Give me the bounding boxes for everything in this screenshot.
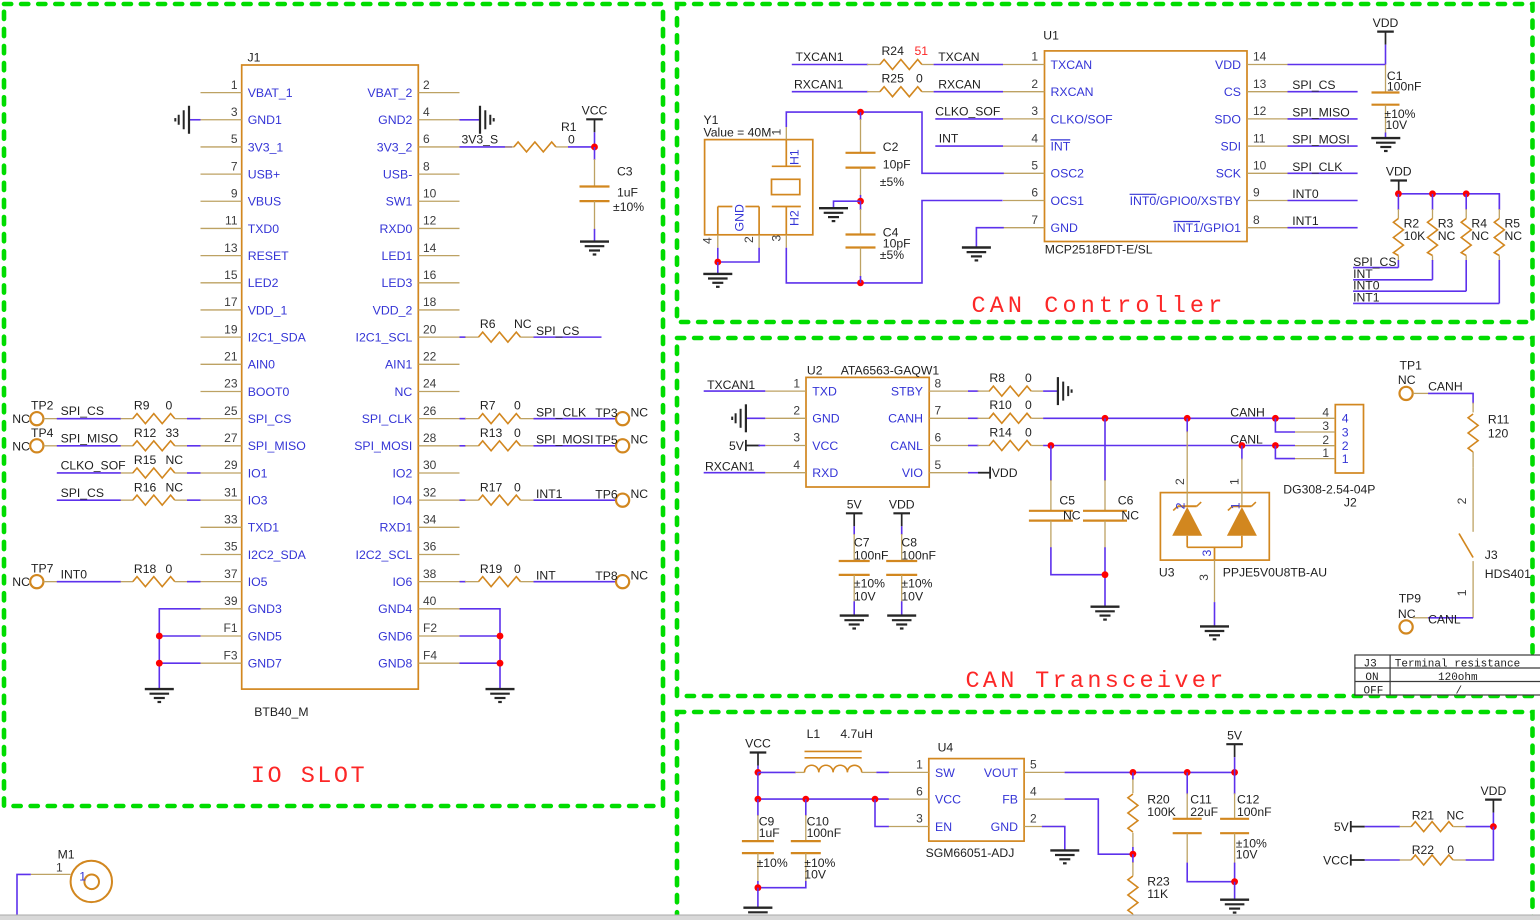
svg-text:GND: GND xyxy=(1051,221,1078,235)
svg-text:0: 0 xyxy=(1447,843,1454,857)
svg-text:SPI_CLK: SPI_CLK xyxy=(1292,160,1342,174)
svg-text:F2: F2 xyxy=(423,621,437,635)
svg-text:11: 11 xyxy=(1253,131,1266,145)
svg-text:R25: R25 xyxy=(882,71,905,85)
svg-text:2: 2 xyxy=(742,236,756,243)
svg-text:38: 38 xyxy=(423,567,437,581)
TVS diode array U3 PPJE5V0U8TB-AU xyxy=(1159,418,1327,602)
wire U4 pin2 GND xyxy=(1042,827,1065,851)
svg-text:51: 51 xyxy=(915,44,929,58)
svg-text:3: 3 xyxy=(1322,419,1329,433)
wire GND bus left xyxy=(159,609,200,689)
svg-text:LED3: LED3 xyxy=(382,276,413,290)
svg-text:34: 34 xyxy=(423,513,437,527)
test point TP1 (NC) xyxy=(1398,359,1429,401)
svg-text:SPI_MOSI: SPI_MOSI xyxy=(354,439,412,453)
svg-text:TP4: TP4 xyxy=(31,426,54,440)
svg-text:3: 3 xyxy=(1031,104,1038,118)
svg-text:SPI_CS: SPI_CS xyxy=(536,324,579,338)
svg-text:Value = 40M: Value = 40M xyxy=(704,126,772,140)
svg-text:CLKO_SOF: CLKO_SOF xyxy=(61,459,126,473)
capacitor C7 100nF xyxy=(839,534,889,616)
svg-text:33: 33 xyxy=(224,513,238,527)
svg-text:3V3_S: 3V3_S xyxy=(462,132,499,146)
svg-text:0: 0 xyxy=(1025,398,1032,412)
svg-text:TP9: TP9 xyxy=(1399,592,1422,606)
svg-text:25: 25 xyxy=(224,404,238,418)
svg-text:VDD: VDD xyxy=(992,466,1018,480)
svg-text:1: 1 xyxy=(770,129,784,136)
junction R2 top xyxy=(1395,190,1402,197)
svg-text:GND1: GND1 xyxy=(248,113,282,127)
net label SPI_CS xyxy=(57,486,121,500)
ground below C5/C6 xyxy=(1091,606,1120,608)
svg-text:120ohm: 120ohm xyxy=(1438,672,1478,684)
svg-text:3: 3 xyxy=(916,812,923,826)
svg-text:SPI_MISO: SPI_MISO xyxy=(248,439,306,453)
net label SPI_CS at U1 pin 13 xyxy=(1288,78,1358,92)
svg-text:VDD: VDD xyxy=(1215,58,1241,72)
wire junction to ground xyxy=(717,262,719,274)
svg-text:RXCAN1: RXCAN1 xyxy=(705,459,755,473)
svg-text:INT: INT xyxy=(939,132,959,146)
svg-text:R15: R15 xyxy=(134,453,157,467)
ground below C9/C10 xyxy=(743,907,772,909)
svg-text:0: 0 xyxy=(514,399,521,413)
wire net VOUT 5V xyxy=(1065,771,1235,773)
svg-text:SPI_CLK: SPI_CLK xyxy=(362,412,413,426)
junction VCC/C3 xyxy=(591,144,598,151)
svg-text:C2: C2 xyxy=(883,140,899,154)
ground at J1 pin 4 xyxy=(460,106,494,134)
resistor R1 0 xyxy=(505,120,577,152)
svg-text:LED2: LED2 xyxy=(248,276,279,290)
resistor R18 0 xyxy=(121,562,201,587)
ground at U1 pin7 xyxy=(962,246,991,248)
test point TP7 (NC) xyxy=(12,562,57,590)
svg-text:2: 2 xyxy=(1031,77,1038,91)
svg-text:37: 37 xyxy=(224,567,238,581)
svg-text:±5%: ±5% xyxy=(880,175,904,189)
svg-text:SGM66051-ADJ: SGM66051-ADJ xyxy=(926,846,1015,860)
svg-text:AIN0: AIN0 xyxy=(248,358,275,372)
wire R1 to VCC node xyxy=(568,146,595,148)
svg-text:INT0/GPIO0/XSTBY: INT0/GPIO0/XSTBY xyxy=(1130,194,1241,208)
svg-text:VBAT_2: VBAT_2 xyxy=(367,86,412,100)
svg-text:4: 4 xyxy=(1031,131,1038,145)
svg-text:R22: R22 xyxy=(1412,843,1435,857)
ground below U3 xyxy=(1200,625,1229,627)
power flag VCC input xyxy=(745,737,771,773)
svg-text:RXD0: RXD0 xyxy=(379,222,412,236)
svg-text:6: 6 xyxy=(1031,186,1038,200)
svg-text:2: 2 xyxy=(1455,497,1469,504)
svg-text:31: 31 xyxy=(224,485,238,499)
svg-text:U2: U2 xyxy=(807,364,823,378)
svg-text:3: 3 xyxy=(1197,574,1211,581)
svg-text:0: 0 xyxy=(166,562,173,576)
resistor R14 0 xyxy=(968,425,1043,450)
svg-text:OSC2: OSC2 xyxy=(1051,167,1085,181)
svg-text:8: 8 xyxy=(1253,213,1260,227)
svg-text:4: 4 xyxy=(1322,406,1329,420)
net label RXCAN1 xyxy=(792,77,868,91)
wire mid junction to ground xyxy=(834,201,861,208)
svg-text:HDS401: HDS401 xyxy=(1485,567,1531,581)
svg-text:U3: U3 xyxy=(1159,565,1175,579)
connector J1 BTB40_M xyxy=(201,51,460,720)
svg-text:R19: R19 xyxy=(480,562,503,576)
resistor R25 0 xyxy=(867,71,934,96)
svg-text:SPI_MOSI: SPI_MOSI xyxy=(1292,133,1350,147)
svg-text:C7: C7 xyxy=(854,536,870,550)
svg-text:INT: INT xyxy=(536,568,556,582)
svg-text:F1: F1 xyxy=(223,621,237,635)
svg-text:NC: NC xyxy=(631,405,649,419)
svg-text:NC: NC xyxy=(166,453,184,467)
svg-text:NC: NC xyxy=(395,385,413,399)
net label SPI_MISO xyxy=(57,431,121,445)
svg-text:0: 0 xyxy=(1025,425,1032,439)
svg-text:1: 1 xyxy=(1031,50,1038,64)
svg-text:RXD1: RXD1 xyxy=(379,521,412,535)
wire VCC rail to U4 pin6 xyxy=(758,772,889,799)
svg-text:1: 1 xyxy=(1228,478,1242,485)
svg-text:4: 4 xyxy=(1342,412,1349,426)
svg-text:GND: GND xyxy=(991,820,1018,834)
svg-text:40: 40 xyxy=(423,594,437,608)
ground below C12 xyxy=(1220,899,1249,901)
svg-text:GND4: GND4 xyxy=(378,602,412,616)
ground bottom right of J1 xyxy=(486,688,515,690)
capacitor C1 100nF xyxy=(1372,65,1422,139)
svg-text:22: 22 xyxy=(423,350,437,364)
net label INT0 at R4 xyxy=(1353,278,1466,292)
svg-text:R11: R11 xyxy=(1488,412,1510,426)
svg-text:F4: F4 xyxy=(423,648,437,662)
svg-text:VDD: VDD xyxy=(889,498,915,512)
power flag VDD output xyxy=(1481,784,1507,827)
capacitor C6 NC xyxy=(1083,418,1139,606)
svg-text:2: 2 xyxy=(423,78,430,92)
svg-text:2: 2 xyxy=(1173,478,1187,485)
svg-text:10: 10 xyxy=(1253,159,1267,173)
net label INT0 at U1 pin 9 xyxy=(1288,187,1358,201)
capacitor C11 22uF xyxy=(1173,772,1235,881)
svg-text:R24: R24 xyxy=(882,44,905,58)
svg-text:10V: 10V xyxy=(854,589,877,603)
svg-text:5V: 5V xyxy=(1334,820,1350,834)
svg-text:±10%: ±10% xyxy=(613,200,644,214)
IC U1 MCP2518FDT-E/SL xyxy=(1003,29,1288,257)
svg-text:TP6: TP6 xyxy=(595,488,618,502)
svg-text:DG308-2.54-04P: DG308-2.54-04P xyxy=(1283,483,1375,497)
svg-text:R9: R9 xyxy=(134,399,150,413)
svg-text:NC: NC xyxy=(1121,508,1139,522)
svg-text:3V3_1: 3V3_1 xyxy=(248,140,284,154)
svg-text:M1: M1 xyxy=(58,848,75,862)
svg-text:R18: R18 xyxy=(134,562,157,576)
svg-text:39: 39 xyxy=(224,594,238,608)
svg-text:SPI_CS: SPI_CS xyxy=(1292,78,1335,92)
svg-text:SW1: SW1 xyxy=(386,195,413,209)
net label RXCAN xyxy=(934,77,1003,91)
test point TP4 (NC) xyxy=(12,426,57,454)
svg-text:5V: 5V xyxy=(729,439,745,453)
svg-text:3: 3 xyxy=(1342,425,1349,439)
svg-text:1: 1 xyxy=(79,870,86,884)
svg-text:R8: R8 xyxy=(989,371,1005,385)
svg-text:1: 1 xyxy=(1455,589,1469,596)
svg-text:8: 8 xyxy=(935,376,942,390)
power flag VDD at C1 xyxy=(1373,16,1399,65)
svg-text:F3: F3 xyxy=(223,648,237,662)
svg-text:J1: J1 xyxy=(248,51,261,65)
junction GND left F3 xyxy=(156,660,163,667)
svg-text:J3: J3 xyxy=(1364,658,1377,670)
svg-text:IO SLOT: IO SLOT xyxy=(251,763,367,790)
power flag 5V at C7 xyxy=(846,498,863,536)
svg-text:GND6: GND6 xyxy=(378,629,412,643)
svg-text:GND: GND xyxy=(733,204,747,231)
power flag VCC xyxy=(582,104,608,147)
net label SPI_CS at R2 xyxy=(1353,255,1398,269)
svg-text:R14: R14 xyxy=(989,425,1012,439)
resistor R3 NC xyxy=(1428,194,1456,280)
capacitor C4 10pF xyxy=(846,201,911,283)
capacitor C9 1uF xyxy=(742,799,788,888)
svg-text:0: 0 xyxy=(514,480,521,494)
svg-text:TXD: TXD xyxy=(812,385,837,399)
svg-text:R6: R6 xyxy=(480,317,496,331)
svg-text:VDD_1: VDD_1 xyxy=(248,303,288,317)
svg-text:1: 1 xyxy=(56,861,63,875)
svg-text:11K: 11K xyxy=(1147,887,1168,901)
svg-text:EN: EN xyxy=(935,820,952,834)
svg-text:100nF: 100nF xyxy=(901,548,936,562)
wire net CANH xyxy=(1043,417,1295,419)
svg-text:INT1: INT1 xyxy=(536,487,563,501)
svg-text:2: 2 xyxy=(1342,439,1349,453)
svg-text:28: 28 xyxy=(423,431,437,445)
wire GND bus right xyxy=(460,609,501,689)
inductor L1 4.7uH xyxy=(758,727,877,773)
svg-text:SCK: SCK xyxy=(1216,167,1242,181)
svg-text:VDD_2: VDD_2 xyxy=(373,303,413,317)
net 3V3_S wire xyxy=(460,132,513,147)
svg-text:14: 14 xyxy=(423,241,437,255)
test point TP2 (NC) xyxy=(12,399,57,427)
net label CANH at TP1 xyxy=(1428,379,1473,403)
svg-text:VCC: VCC xyxy=(582,104,608,118)
svg-text:R21: R21 xyxy=(1412,808,1435,822)
resistor R24 51 xyxy=(867,44,934,69)
IC U2 ATA6563-GAQW1 xyxy=(765,364,968,487)
resistor R16 NC xyxy=(121,480,201,505)
svg-text:TXCAN: TXCAN xyxy=(1051,58,1093,72)
svg-text:4: 4 xyxy=(793,458,800,472)
wire junction to ground C12 xyxy=(1234,882,1236,900)
svg-text:±5%: ±5% xyxy=(880,248,904,262)
svg-text:7: 7 xyxy=(1031,213,1038,227)
svg-text:12: 12 xyxy=(423,214,437,228)
svg-text:R10: R10 xyxy=(989,398,1012,412)
net label SPI_CS xyxy=(534,324,602,338)
net label TXCAN1 xyxy=(792,50,868,64)
svg-text:NC: NC xyxy=(12,412,30,426)
svg-text:2: 2 xyxy=(1322,433,1329,447)
svg-text:4: 4 xyxy=(701,237,715,244)
junction C2 top xyxy=(857,109,864,116)
test point TP5 (NC) xyxy=(595,433,648,453)
svg-text:9: 9 xyxy=(231,186,238,200)
svg-text:10: 10 xyxy=(423,186,437,200)
junction R21/R22/VDD xyxy=(1490,823,1497,830)
svg-text:NC: NC xyxy=(1447,808,1465,822)
capacitor C8 100nF xyxy=(886,534,936,616)
power flag VDD at resistor bank xyxy=(1386,165,1412,194)
svg-text:USB-: USB- xyxy=(383,168,412,182)
connector J2 DG308-2.54-04P xyxy=(1283,405,1375,510)
wire net CANL xyxy=(1043,445,1295,447)
svg-text:36: 36 xyxy=(423,540,437,554)
svg-text:U1: U1 xyxy=(1043,29,1059,43)
svg-text:VDD: VDD xyxy=(1373,16,1399,30)
svg-text:5: 5 xyxy=(1030,758,1037,772)
wire R21 to VDD node xyxy=(1466,826,1494,828)
svg-text:5: 5 xyxy=(1031,159,1038,173)
svg-text:IO1: IO1 xyxy=(248,466,268,480)
ground below C8 xyxy=(887,614,916,616)
svg-text:7: 7 xyxy=(935,404,942,418)
svg-text:1: 1 xyxy=(1322,446,1329,460)
svg-text:2: 2 xyxy=(793,404,800,418)
svg-text:NC: NC xyxy=(631,433,649,447)
svg-text:3: 3 xyxy=(1200,550,1214,557)
svg-text:VBUS: VBUS xyxy=(248,195,282,209)
capacitor C3 1uF xyxy=(580,147,645,242)
svg-text:30: 30 xyxy=(423,458,437,472)
crystal Y1 40M xyxy=(701,113,813,248)
svg-text:±10%: ±10% xyxy=(854,576,885,590)
svg-text:5V: 5V xyxy=(847,498,863,512)
svg-text:NC: NC xyxy=(1438,229,1456,243)
svg-text:OFF: OFF xyxy=(1364,685,1384,697)
svg-text:TP5: TP5 xyxy=(595,433,618,447)
ground at U4 pin2 xyxy=(1050,849,1079,851)
svg-text:22uF: 22uF xyxy=(1190,805,1218,819)
net label SPI_CLK xyxy=(534,405,616,419)
capacitor C2 10pF xyxy=(846,112,911,201)
test point TP8 (NC) xyxy=(595,568,648,588)
svg-text:I2C1_SDA: I2C1_SDA xyxy=(248,331,307,345)
svg-text:0: 0 xyxy=(514,426,521,440)
wire M1 to bottom xyxy=(17,874,31,916)
svg-text:SDO: SDO xyxy=(1214,112,1241,126)
svg-text:10V: 10V xyxy=(804,867,827,881)
svg-text:35: 35 xyxy=(224,540,238,554)
svg-text:1: 1 xyxy=(916,758,923,772)
junction VCC/L1 xyxy=(755,769,762,776)
wire CANL to J2 pin1 xyxy=(1275,446,1295,459)
svg-text:NC: NC xyxy=(631,487,649,501)
svg-text:100nF: 100nF xyxy=(1237,805,1272,819)
svg-text:TXCAN1: TXCAN1 xyxy=(707,378,755,392)
ground below Y1 xyxy=(703,273,732,275)
svg-text:2: 2 xyxy=(1030,812,1037,826)
svg-text:IO2: IO2 xyxy=(392,466,412,480)
section frame IO SLOT xyxy=(4,4,663,806)
table J3 terminal resistance xyxy=(1355,655,1540,697)
svg-text:16: 16 xyxy=(423,268,437,282)
svg-text:BOOT0: BOOT0 xyxy=(248,385,290,399)
svg-text:INT1: INT1 xyxy=(1353,291,1380,305)
section frame CAN Controller xyxy=(677,4,1533,322)
svg-text:SPI_MOSI: SPI_MOSI xyxy=(536,433,594,447)
svg-text:8: 8 xyxy=(423,159,430,173)
svg-text:SDI: SDI xyxy=(1221,140,1242,154)
svg-text:VCC: VCC xyxy=(1323,853,1349,867)
svg-text:TP1: TP1 xyxy=(1400,359,1423,373)
net label INT1 xyxy=(534,487,616,501)
svg-text:18: 18 xyxy=(423,295,437,309)
junction C5/C6 ground xyxy=(1102,571,1109,578)
svg-text:15: 15 xyxy=(224,268,238,282)
svg-text:L1: L1 xyxy=(807,727,821,741)
svg-text:12: 12 xyxy=(1253,104,1267,118)
resistor R10 0 xyxy=(968,398,1043,423)
svg-text:33: 33 xyxy=(166,426,180,440)
svg-text:5: 5 xyxy=(935,458,942,472)
svg-text:32: 32 xyxy=(423,485,437,499)
ground after R8 xyxy=(1057,377,1059,405)
svg-text:24: 24 xyxy=(423,377,437,391)
svg-text:INT: INT xyxy=(1051,140,1071,154)
resistor R2 10K xyxy=(1393,194,1425,268)
svg-text:SPI_CS: SPI_CS xyxy=(248,412,292,426)
svg-text:9: 9 xyxy=(1253,186,1260,200)
svg-text:IO6: IO6 xyxy=(392,575,412,589)
resistor R21 NC xyxy=(1400,808,1466,831)
net label INT1 at R5 xyxy=(1353,291,1499,305)
junction C11/C12 ground xyxy=(1231,878,1238,885)
svg-text:NC: NC xyxy=(1471,229,1489,243)
wire OSC2 net (Y1 pin1 to U1 pin5) xyxy=(786,112,1004,173)
svg-text:R12: R12 xyxy=(134,426,157,440)
net label SPI_CS xyxy=(57,404,121,418)
svg-text:6: 6 xyxy=(423,132,430,146)
svg-text:100K: 100K xyxy=(1147,805,1175,819)
junction VOUT/C12 xyxy=(1231,769,1238,776)
svg-text:I2C2_SCL: I2C2_SCL xyxy=(356,548,413,562)
resistor R6 NC xyxy=(460,317,534,342)
svg-text:100nF: 100nF xyxy=(854,548,889,562)
svg-text:GND2: GND2 xyxy=(378,113,412,127)
svg-text:5V: 5V xyxy=(1227,728,1243,742)
svg-text:GND8: GND8 xyxy=(378,657,412,671)
svg-text:GND: GND xyxy=(812,412,839,426)
svg-text:TP3: TP3 xyxy=(595,406,618,420)
power flag VCC at R22 xyxy=(1323,853,1400,867)
svg-text:Terminal resistance: Terminal resistance xyxy=(1395,658,1520,670)
svg-text:J3: J3 xyxy=(1485,548,1498,562)
resistor R4 NC xyxy=(1461,194,1489,291)
svg-text:20: 20 xyxy=(423,322,437,336)
resistor R15 NC xyxy=(121,453,201,478)
ground bottom left of J1 xyxy=(145,688,174,690)
switch J3 HDS401 xyxy=(1455,467,1531,618)
svg-text:21: 21 xyxy=(224,350,238,364)
